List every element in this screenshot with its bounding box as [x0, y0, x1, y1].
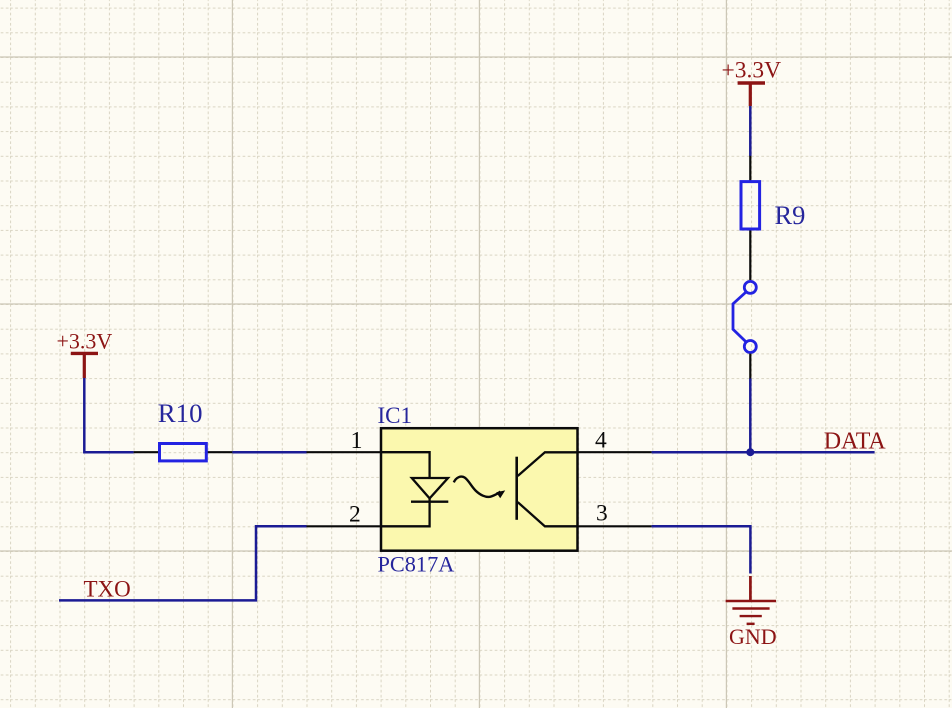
ground bar 2 [732, 607, 769, 609]
svg-text:3: 3 [596, 500, 608, 526]
jumper (solder bridge) [733, 281, 756, 352]
jumper bottom pin [749, 354, 751, 379]
emitter [518, 502, 578, 526]
power +3.3V (top right) [722, 58, 782, 107]
svg-text:2: 2 [349, 501, 361, 527]
R9 pin 2 (bottom) [749, 230, 751, 281]
IC1 pin 3 [578, 525, 652, 527]
IC1 pin 1 [307, 451, 382, 453]
R9 body [741, 182, 760, 229]
jumper pad 2 [744, 341, 756, 353]
IC1 pin 4 [578, 451, 652, 453]
svg-text:PC817A: PC817A [378, 552, 455, 577]
svg-text:R10: R10 [158, 398, 203, 428]
IC1 body [381, 428, 578, 551]
LED anode lead [381, 452, 430, 478]
ground bar 3 [740, 615, 762, 617]
ground [726, 576, 776, 624]
wire jumper to DATA junction [749, 379, 752, 453]
svg-text:+3.3V: +3.3V [722, 58, 782, 84]
wire IC1 pin 3 to GND [652, 526, 751, 573]
optocoupler IC1 PC817A [307, 403, 652, 577]
svg-text:TXO: TXO [84, 576, 131, 601]
svg-text:R9: R9 [775, 200, 806, 230]
R10 pin 2 (right) [207, 451, 232, 453]
svg-text:1: 1 [351, 428, 363, 454]
power stem [749, 83, 752, 106]
R10 pin 1 (left) [134, 451, 159, 453]
wire +3.3V to R10 [84, 378, 133, 452]
wire R10 to IC1 pin 1 [232, 451, 306, 454]
jumper pad 1 [744, 281, 756, 293]
ground stem [749, 576, 752, 601]
R10 body [160, 444, 207, 461]
resistor R10 [134, 398, 233, 461]
svg-text:IC1: IC1 [378, 403, 413, 428]
jumper link [733, 292, 746, 342]
resistor R9 [741, 156, 805, 280]
svg-text:+3.3V: +3.3V [57, 329, 113, 354]
power +3.3V (left) [57, 329, 113, 379]
power stem [83, 353, 86, 378]
R9 pin 1 (top) [749, 156, 751, 181]
wire DATA net [652, 451, 875, 454]
LED cathode lead [381, 498, 430, 526]
power bar [738, 81, 765, 84]
IC1 pin 2 [307, 525, 382, 527]
light arrow [454, 477, 501, 497]
junction on DATA net [746, 448, 754, 456]
ground bar 4 [747, 623, 755, 625]
svg-text:DATA: DATA [824, 428, 887, 454]
LED cathode bar [411, 501, 448, 503]
wire TXO net to IC1 pin 2 [59, 526, 307, 600]
power bar [71, 352, 98, 355]
svg-text:GND: GND [729, 624, 777, 649]
phototransistor base [515, 457, 518, 520]
ground bar 1 [726, 600, 776, 602]
wire +3.3V to R9 [749, 106, 752, 156]
LED triangle [412, 478, 448, 498]
collector [518, 452, 578, 476]
svg-text:4: 4 [595, 428, 607, 454]
